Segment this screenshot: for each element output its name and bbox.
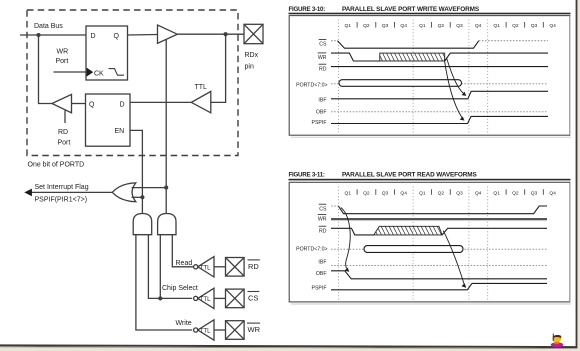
svg-text:PARALLEL SLAVE PORT READ WAVEF: PARALLEL SLAVE PORT READ WAVEFORMS: [342, 172, 477, 179]
svg-text:RDx: RDx: [245, 52, 259, 59]
svg-text:TTL: TTL: [200, 266, 211, 272]
wire TTL to CS pin: [214, 297, 226, 299]
svg-text:Q4: Q4: [549, 23, 556, 29]
wire WR Port to CK: [54, 71, 87, 73]
svg-text:OBF: OBF: [316, 271, 327, 277]
waveform RD: [331, 226, 547, 235]
svg-text:TTL: TTL: [200, 329, 211, 335]
svg-text:Read: Read: [176, 260, 193, 267]
svg-text:Q4: Q4: [475, 190, 482, 196]
wire AND1 left input to Write line: [136, 235, 192, 330]
svg-text:Write: Write: [176, 320, 192, 327]
svg-text:Data Bus: Data Bus: [34, 23, 63, 30]
svg-text:Q4: Q4: [400, 190, 407, 196]
node data bus junction: [36, 33, 40, 37]
logo: [551, 334, 563, 348]
svg-text:TTL: TTL: [200, 297, 211, 303]
svg-text:Q2: Q2: [512, 23, 519, 29]
dotted time graticule: [339, 20, 488, 134]
frame figure 3-11: [289, 182, 570, 302]
waveform IBF: [331, 91, 548, 99]
flip-flop U2 (read latch): [86, 94, 131, 146]
waveform WR: [331, 218, 547, 220]
svg-text:Q2: Q2: [438, 23, 445, 29]
signal labels: [296, 42, 327, 127]
svg-text:Q1: Q1: [419, 23, 426, 29]
svg-text:Q1: Q1: [419, 190, 426, 196]
wire Q to output buffer: [128, 34, 158, 37]
svg-text:Q2: Q2: [363, 190, 370, 196]
wire AND2 right input to Read line: [172, 235, 193, 267]
wire tri-state enable from AND2: [165, 40, 167, 214]
svg-text:Port: Port: [56, 58, 69, 65]
pin WR box: [226, 321, 245, 340]
svg-text:WR: WR: [57, 48, 69, 55]
wire RD Port enable stub: [64, 111, 66, 124]
svg-text:Q2: Q2: [363, 23, 370, 29]
arrow WR to PSPIF: [444, 59, 462, 117]
svg-text:D: D: [120, 102, 125, 109]
svg-text:WR: WR: [318, 217, 327, 223]
waveform IBF: [331, 265, 547, 267]
svg-text:FIGURE 3-11:: FIGURE 3-11:: [289, 172, 325, 179]
buffer TTL chip select with bubble: [194, 296, 198, 300]
svg-text:Q3: Q3: [456, 190, 463, 196]
waveform PORTD bus: [331, 83, 548, 85]
arrow WR to IBF: [447, 59, 464, 94]
svg-text:Q3: Q3: [382, 23, 389, 29]
svg-text:pin: pin: [245, 63, 254, 70]
dashed box: one bit of PORTD: [27, 10, 238, 156]
svg-text:Q2: Q2: [438, 190, 445, 196]
wire EN to AND1 output: [130, 130, 142, 213]
svg-text:Q3: Q3: [456, 23, 463, 29]
wire data bus: [20, 34, 86, 36]
svg-text:CS: CS: [248, 294, 258, 303]
svg-text:OBF: OBF: [316, 110, 327, 116]
node OR upper input junction: [164, 186, 168, 190]
svg-text:One bit of PORTD: One bit of PORTD: [28, 162, 85, 169]
svg-text:Q: Q: [114, 33, 120, 40]
svg-text:PSPIF(PIR1<7>): PSPIF(PIR1<7>): [35, 196, 88, 203]
pin CK arrow: [87, 68, 94, 77]
buffer RD port read buffer: [52, 94, 72, 112]
waveform WR: [331, 53, 548, 61]
waveform OBF: [331, 111, 548, 113]
waveform RD: [331, 66, 548, 68]
svg-text:IBF: IBF: [318, 98, 326, 104]
wire AND1 right input to Chip Select line: [148, 235, 192, 299]
wire RDx down to TTL input buffer: [211, 34, 226, 102]
svg-text:TTL: TTL: [195, 84, 208, 91]
wire OR input upper: [132, 187, 167, 189]
node CS junction: [158, 296, 162, 300]
svg-text:Q2: Q2: [512, 190, 519, 196]
svg-text:WR: WR: [318, 55, 327, 61]
wire TTL to RD pin: [214, 266, 226, 268]
waveform OBF: [331, 271, 547, 279]
svg-text:Port: Port: [58, 139, 71, 146]
waveform CS: [331, 41, 548, 49]
svg-text:FIGURE 3-10:: FIGURE 3-10:: [289, 6, 326, 13]
svg-text:Q4: Q4: [549, 190, 556, 196]
svg-text:RD: RD: [248, 262, 259, 271]
svg-text:RD: RD: [319, 228, 327, 234]
waveform PORTD bus: [331, 248, 547, 250]
svg-text:Q3: Q3: [531, 190, 538, 196]
svg-text:PORTD<7:0>: PORTD<7:0>: [296, 247, 327, 253]
waveform PSPIF: [331, 116, 548, 123]
wire TTL out to D of read latch: [130, 101, 191, 103]
falling edge symbol: [109, 69, 125, 76]
svg-text:Chip Select: Chip Select: [162, 285, 198, 292]
wire buffer to RDx pin: [177, 33, 244, 35]
svg-text:Q4: Q4: [400, 23, 407, 29]
arrow CS to OBF: [341, 208, 350, 269]
pin RDx box: [244, 24, 263, 43]
svg-text:CK: CK: [94, 70, 104, 77]
svg-text:Q4: Q4: [475, 23, 482, 29]
wire TTL to WR pin: [214, 329, 226, 331]
pin RD box: [226, 258, 245, 277]
svg-text:WR: WR: [248, 325, 261, 334]
svg-text:Set Interrupt Flag: Set Interrupt Flag: [35, 184, 89, 191]
wire OR output to flag arrow: [30, 191, 113, 193]
waveform CS: [331, 206, 547, 214]
svg-text:PARALLEL SLAVE PORT WRITE WAVE: PARALLEL SLAVE PORT WRITE WAVEFORMS: [342, 6, 480, 13]
svg-text:RD: RD: [58, 129, 68, 136]
Q phase labels row: [345, 190, 557, 196]
svg-text:PORTD<7:0>: PORTD<7:0>: [296, 83, 327, 89]
and-gate U5 (read strobe): [158, 214, 176, 235]
svg-text:D: D: [91, 33, 96, 40]
FIGURE 3-11: [289, 172, 572, 304]
svg-text:Q1: Q1: [345, 190, 352, 196]
node RDx junction: [224, 32, 228, 36]
pin CS box: [226, 289, 245, 308]
dotted time graticule: [339, 187, 488, 300]
arrow RD to PSPIF: [443, 231, 464, 284]
waveform PSPIF: [331, 283, 547, 289]
or-gate U3: [112, 183, 136, 202]
right page edge: [577, 0, 580, 351]
flip-flop U1 (write latch): [86, 26, 128, 80]
svg-text:Q1: Q1: [493, 190, 500, 196]
wire data bus down to read buffer: [39, 35, 52, 104]
svg-text:CS: CS: [319, 42, 327, 48]
svg-text:Q3: Q3: [382, 190, 389, 196]
buffer TTL write with bubble: [194, 328, 198, 332]
svg-text:IBF: IBF: [318, 259, 326, 265]
wire AND2 left input to CS junction: [159, 235, 161, 299]
frame figure 3-10: [289, 16, 570, 136]
svg-text:EN: EN: [115, 128, 125, 135]
signal labels: [296, 206, 327, 291]
FIGURE 3-10: [289, 6, 572, 137]
wire Q out to read buffer: [72, 103, 86, 105]
svg-text:RD: RD: [319, 66, 327, 72]
svg-text:Q1: Q1: [345, 23, 352, 29]
buffer output driver: [158, 25, 178, 43]
svg-text:PSPIF: PSPIF: [312, 286, 327, 292]
svg-text:Q1: Q1: [493, 23, 500, 29]
node OR lower input junction: [140, 195, 144, 199]
svg-text:PSPIF: PSPIF: [312, 120, 327, 126]
buffer TTL read with bubble: [194, 265, 198, 269]
svg-text:CS: CS: [319, 206, 327, 212]
Q phase labels row: [345, 23, 557, 29]
svg-text:Q3: Q3: [531, 23, 538, 29]
and-gate U4 (write strobe): [133, 214, 152, 235]
svg-text:Q: Q: [89, 102, 95, 109]
wire OR input lower: [132, 196, 143, 198]
bottom page edge: [0, 344, 577, 348]
